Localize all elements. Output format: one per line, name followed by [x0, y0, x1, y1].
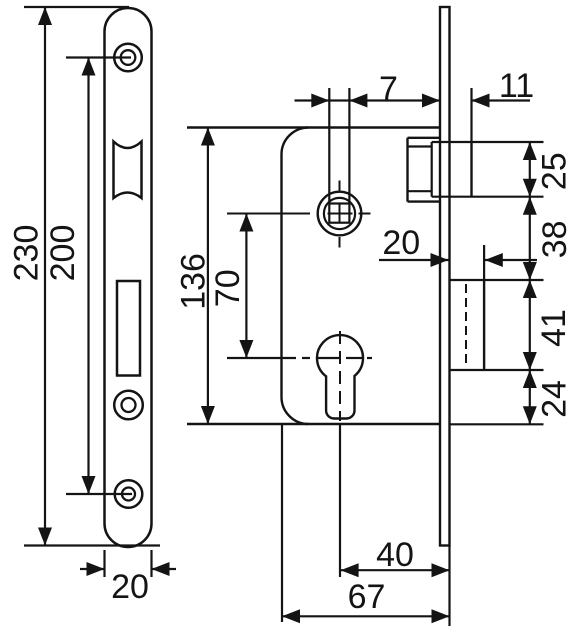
dimension 7 arrow right — [311, 94, 329, 108]
dimension 40 line — [341, 569, 450, 571]
screw hole bottom outer — [115, 480, 143, 508]
svg-text:20: 20 — [111, 568, 149, 606]
dimension 20 left leader — [379, 259, 449, 261]
screw hole middle inner — [122, 398, 136, 412]
dimension 24 arrow down — [523, 406, 537, 424]
dimension 40 arrow right — [432, 563, 450, 577]
extension line case left edge down — [281, 424, 283, 622]
dimension 20 (plate width) left leader — [80, 568, 105, 570]
dimension 20 arrow right — [431, 253, 449, 267]
dimension 20 arrow left — [485, 253, 503, 267]
screw hole top inner — [121, 50, 136, 65]
svg-text:67: 67 — [348, 578, 386, 616]
extension line plate right edge — [150, 550, 152, 577]
latch housing left edge — [406, 138, 408, 202]
dimension 11 right leader — [472, 99, 531, 101]
spindle centre line horizontal — [227, 213, 310, 215]
extension line deadbolt face up — [483, 245, 485, 281]
case top-left corner arc — [282, 128, 309, 155]
faceplate outline — [105, 8, 152, 547]
svg-text:70: 70 — [209, 269, 247, 307]
deadbolt centre line dashed — [465, 284, 467, 366]
dimension 20 right leader — [152, 568, 177, 570]
dimension 136 line — [207, 128, 209, 425]
dimension 136 arrow down — [201, 406, 215, 424]
right dimension column line — [529, 142, 531, 424]
screw hole bottom inner — [122, 488, 135, 501]
spindle square hole — [329, 204, 349, 223]
dimension 230 arrow down — [38, 528, 52, 546]
svg-text:136: 136 — [174, 253, 212, 310]
svg-text:20: 20 — [382, 224, 420, 262]
euro cylinder hole — [317, 335, 363, 418]
dimension 230 line — [44, 7, 46, 546]
extension line spindle square right — [348, 88, 350, 204]
dimension 67 arrow right — [432, 609, 450, 623]
dimension 200 arrow up — [82, 58, 96, 76]
extension line deadbolt bottom — [450, 369, 544, 371]
svg-text:24: 24 — [536, 380, 574, 418]
dimension 200 line — [87, 58, 89, 495]
extension line top — [24, 6, 129, 8]
latch shaft bottom — [408, 190, 432, 192]
dimension 20 arrow right — [87, 562, 105, 576]
case bottom-left corner arc — [282, 397, 309, 424]
dimension 7 arrow left — [349, 94, 367, 108]
dimension 200 arrow down — [82, 476, 96, 494]
deadbolt front face — [483, 280, 485, 370]
extension line case bottom right — [450, 423, 544, 425]
svg-text:11: 11 — [499, 67, 534, 105]
dimension 38 arrow up — [523, 197, 537, 215]
cylinder centre line vertical solid below case — [339, 424, 341, 577]
dimension 25 arrow up — [523, 142, 537, 160]
extension line below strip — [448, 546, 450, 627]
screw hole middle outer — [114, 391, 143, 420]
dimension 136 arrow up — [201, 128, 215, 146]
dimension 230 arrow up — [38, 7, 52, 25]
extension line spindle square left — [328, 88, 330, 204]
latch housing bottom — [408, 200, 441, 202]
svg-text:25: 25 — [535, 152, 573, 190]
dimension 25 arrow down — [523, 179, 537, 197]
dimension 20 right leader — [485, 259, 537, 261]
latch head front face — [470, 142, 472, 197]
case top edge + extension — [187, 126, 440, 128]
screw hole top outer — [114, 44, 142, 72]
svg-text:7: 7 — [379, 70, 398, 108]
dimension 70 line — [245, 214, 247, 359]
case bottom edge + extension — [187, 423, 440, 425]
latch housing top — [408, 137, 441, 139]
dimension 67 line — [282, 615, 450, 617]
latch head bottom + extension to 25 — [432, 196, 544, 198]
dimension 41 arrow down — [523, 352, 537, 370]
faceplate edge strip — [440, 7, 450, 546]
extension line hole bottom — [66, 493, 132, 495]
spindle centre line vertical — [339, 181, 341, 191]
spindle follower inner circle — [324, 198, 355, 229]
svg-text:41: 41 — [535, 309, 573, 347]
dimension 67 arrow left — [282, 609, 300, 623]
svg-text:38: 38 — [536, 220, 574, 258]
extension line hole top — [66, 56, 131, 58]
dimension 41 arrow up — [523, 280, 537, 298]
extension line plate left edge — [103, 550, 105, 577]
latch head top + extension to 25 — [432, 141, 544, 143]
spindle follower outer circle — [318, 192, 362, 236]
svg-text:40: 40 — [376, 536, 414, 574]
extension line latch tip — [470, 88, 472, 142]
dimension 7/11 top line — [295, 99, 441, 101]
latch shaft top — [408, 145, 432, 147]
latch cutout — [114, 142, 142, 199]
dimension 40 arrow left — [341, 563, 359, 577]
dimension 70 arrow down — [239, 340, 253, 358]
cylinder centre line vertical dashed — [339, 331, 341, 421]
extension line bottom — [24, 544, 160, 546]
dimension 20 arrow left — [152, 562, 170, 576]
dimension 70 arrow up — [239, 214, 253, 232]
cylinder centre line horizontal — [227, 357, 296, 359]
deadbolt cutout — [117, 281, 140, 376]
dimension 11 arrow right — [422, 94, 440, 108]
dimension 11 arrow left — [472, 94, 490, 108]
dimension 24 arrow up — [523, 370, 537, 388]
svg-text:200: 200 — [44, 225, 82, 282]
case left edge — [280, 155, 282, 398]
svg-text:230: 230 — [8, 225, 46, 282]
extension line deadbolt top — [450, 279, 544, 281]
dimension 38 arrow down — [523, 262, 537, 280]
latch head left edge — [431, 142, 433, 197]
